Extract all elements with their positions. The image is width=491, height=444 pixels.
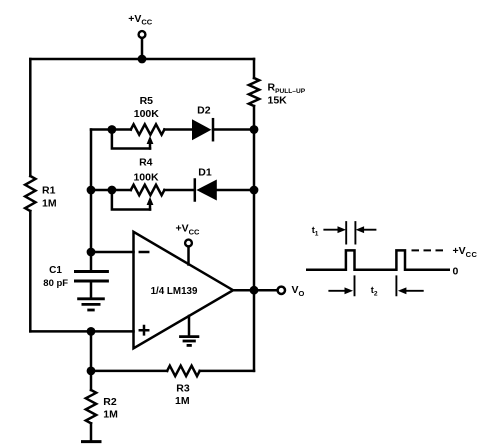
junction R2/R3 node (87, 367, 96, 376)
wire VCC stub (141, 38, 144, 59)
svg-text:1M: 1M (175, 395, 190, 407)
wire R4 to D1 (164, 189, 194, 192)
svg-text:1M: 1M (42, 198, 57, 210)
resistor RPULL-UP 15K (249, 78, 306, 107)
svg-text:100K: 100K (134, 108, 160, 120)
ground below R2 (81, 440, 102, 443)
svg-text:15K: 15K (268, 95, 288, 107)
terminal VO (278, 284, 305, 298)
capacitor C1 80 pF (43, 252, 109, 297)
svg-text:R1: R1 (42, 185, 56, 197)
dashed VCC level line (412, 249, 447, 251)
wire R3 row left (91, 370, 167, 373)
junction R4 row / mid vertical (87, 186, 96, 195)
junction plus row / lower vertical (87, 327, 96, 336)
junction D2 output (250, 125, 259, 134)
wire top supply rail (30, 58, 254, 61)
t1 dimension marks (312, 221, 377, 244)
svg-text:R3: R3 (176, 383, 190, 395)
junction R4 left node (108, 186, 117, 195)
junction C1 / inverting input (87, 248, 96, 257)
junction output node (250, 286, 259, 295)
potentiometer R4 100K (112, 156, 164, 209)
svg-text:0: 0 (453, 265, 459, 277)
diode D2 (192, 104, 213, 140)
svg-text:80 pF: 80 pF (43, 278, 68, 289)
resistor R1 (25, 176, 57, 211)
diode D1 (195, 166, 217, 200)
waveform pulse train (306, 250, 450, 269)
resistor R2 1M (86, 371, 118, 423)
junction R5 left node (108, 125, 117, 134)
t2 dimension marks (328, 275, 423, 297)
wire R4 row left (91, 189, 131, 192)
+VCC pin of comparator (176, 223, 201, 265)
wire output (233, 289, 277, 292)
svg-text:1/4 LM139: 1/4 LM139 (151, 286, 198, 297)
wire D1 to output node (217, 189, 254, 192)
ground pin of comparator (179, 316, 199, 345)
wire middle vertical (inverting node) (90, 130, 93, 253)
+VCC supply terminal (128, 13, 153, 38)
wire right vertical (output node) (253, 106, 256, 371)
wire R5 row left (91, 128, 131, 131)
wire lower mid vertical (90, 331, 93, 371)
junction VCC rail (138, 55, 147, 64)
svg-text:R2: R2 (103, 396, 117, 408)
svg-text:100K: 100K (133, 171, 159, 183)
ground below C1 (77, 299, 105, 310)
wire R2 to ground (90, 423, 93, 440)
svg-text:1M: 1M (103, 408, 118, 420)
potentiometer R5 100K (112, 95, 164, 149)
svg-text:D1: D1 (198, 166, 212, 178)
svg-text:R4: R4 (139, 156, 153, 168)
svg-text:C1: C1 (49, 265, 62, 276)
wire R5 to D2 (164, 128, 192, 131)
wire inverting input (91, 251, 134, 254)
wire right vertical top (253, 59, 256, 78)
resistor R3 1M (167, 366, 200, 408)
wire non-inverting input row (30, 330, 133, 333)
junction D1 output (250, 186, 259, 195)
wire R3 to output vertical (200, 370, 254, 373)
wire left vertical upper (29, 59, 32, 176)
wire D2 to output node (213, 128, 254, 131)
op-amp U1 1/4 LM139 (134, 232, 234, 348)
wire left vertical lower (29, 211, 32, 331)
svg-text:D2: D2 (197, 104, 211, 116)
svg-text:R5: R5 (140, 95, 154, 107)
